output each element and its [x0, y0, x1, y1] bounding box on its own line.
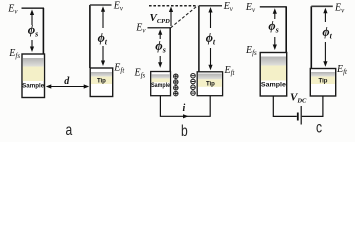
- phi_t up arrow (panel b): [210, 10, 212, 28]
- phi_s down arrow (panel b): [159, 56, 161, 64]
- phi_s up arrow (panel c): [274, 12, 276, 20]
- phi_s up arrow (panel a): [31, 13, 33, 25]
- svg-text:i: i: [183, 103, 186, 114]
- phi_t down arrow (panel a): [102, 46, 104, 62]
- tip box (panel c): [310, 69, 335, 97]
- svg-text:Tip: Tip: [97, 79, 106, 85]
- tip vacuum level line (panel b): [199, 5, 222, 7]
- svg-text:c: c: [316, 118, 322, 136]
- svg-text:Sample: Sample: [261, 83, 287, 89]
- battery short plate (panel c): [297, 113, 299, 121]
- tip vacuum level line (panel a): [90, 4, 112, 6]
- positive surface charges (panel b): [174, 74, 179, 96]
- wire from battery to tip (panel c): [302, 96, 323, 116]
- tip vacuum level line (panel c): [311, 5, 333, 7]
- phi_t down arrow (panel b): [210, 48, 212, 67]
- V_CPD arrow (panel b): [170, 10, 172, 27]
- wire from sample to tip (panel b): [160, 96, 210, 116]
- sample vacuum-to-surface vertical wire (panel c): [285, 7, 287, 53]
- tip vacuum-to-surface vertical wire (panel a): [89, 5, 91, 68]
- phi_t down arrow (panel c): [324, 42, 326, 63]
- sample vacuum-to-surface vertical wire (panel b): [169, 28, 171, 72]
- raised vacuum reference dashed line (panel b): [149, 5, 198, 7]
- dashed diagonal connecting sample and tip vacuum levels (panel b): [171, 6, 198, 28]
- sample box (panel c): [260, 53, 287, 97]
- sample box (panel b): [151, 72, 171, 96]
- phi_s down arrow (panel a): [31, 40, 33, 48]
- svg-text:Sample: Sample: [22, 83, 45, 89]
- wire from sample to battery (panel c): [273, 96, 297, 116]
- phi_s down arrow (panel c): [274, 37, 276, 46]
- sample box (panel a): [22, 54, 45, 98]
- sample vacuum level line (panel a): [22, 7, 45, 9]
- tip box (panel a): [90, 68, 113, 97]
- tip box (panel b): [197, 72, 222, 96]
- phi_t up arrow (panel a): [102, 10, 104, 28]
- sample vacuum level line (panel b): [148, 27, 171, 29]
- phi_t up arrow (panel c): [324, 11, 326, 22]
- battery long plate (panel c): [300, 106, 302, 125]
- svg-text:a: a: [66, 121, 73, 139]
- svg-text:Tip: Tip: [319, 79, 328, 85]
- sample vacuum-to-surface vertical wire (panel a): [42, 8, 44, 54]
- negative surface charges (panel b): [191, 73, 196, 95]
- current arrowhead on wire (panel b): [183, 114, 189, 118]
- svg-text:b: b: [181, 122, 188, 140]
- tip vacuum-to-surface vertical wire (panel c): [310, 6, 312, 68]
- sample vacuum level line (panel c): [260, 6, 287, 8]
- svg-text:Tip: Tip: [206, 82, 215, 88]
- tip vacuum-to-surface vertical wire (panel b): [198, 6, 200, 72]
- gap distance arrow d (panel a): [46, 84, 89, 88]
- phi_s up arrow (panel b): [159, 33, 161, 40]
- svg-text:Sample: Sample: [151, 83, 171, 89]
